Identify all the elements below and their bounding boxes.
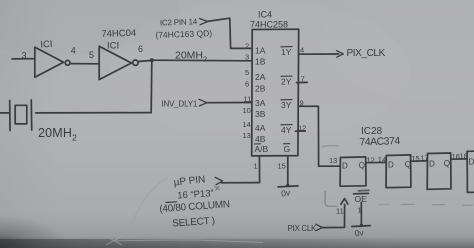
crystal X1 20MHz bbox=[10, 100, 32, 131]
svg-text:6: 6 bbox=[245, 80, 249, 89]
svg-text:3Y: 3Y bbox=[281, 100, 292, 110]
pin label 3Y with overline bbox=[281, 100, 293, 110]
FF1 D label bbox=[342, 162, 348, 171]
pin number 15 (FF2 Q) bbox=[411, 154, 419, 163]
svg-text:G: G bbox=[284, 144, 291, 154]
wire INV_DLY1 to IC4 pin11 3A bbox=[206, 102, 252, 104]
svg-text:INV_DLY1: INV_DLY1 bbox=[162, 100, 198, 109]
inverter U1A (IC1) bbox=[35, 47, 70, 77]
wire IC4 pin4 1Y to PIX_CLK bbox=[299, 53, 339, 55]
wire FF1 Q to FF2 D bbox=[366, 161, 386, 163]
svg-text:15: 15 bbox=[278, 162, 286, 171]
pin number 12 bbox=[298, 124, 306, 133]
pin label 1A bbox=[255, 46, 266, 56]
pin number 16 (FF3 Q) bbox=[452, 152, 460, 161]
svg-text:6: 6 bbox=[138, 44, 143, 54]
label 20MHz (top wire) bbox=[175, 49, 207, 63]
pin number 10 bbox=[243, 106, 251, 115]
wire crystal left stub bbox=[0, 112, 10, 114]
pin number 14 bbox=[243, 120, 251, 129]
arrow IC2 PIN14 bbox=[200, 19, 208, 25]
wire PIX_CLK to IC28 clock pin11 bbox=[322, 205, 345, 228]
pin number 6 bbox=[245, 80, 249, 89]
pin number 5 bbox=[245, 68, 249, 77]
paper crease bbox=[100, 177, 263, 245]
pin 3 label bbox=[22, 51, 27, 61]
pin number 2 bbox=[245, 42, 249, 51]
pin label 3B bbox=[255, 109, 266, 119]
label OE bbox=[355, 194, 368, 204]
svg-text:2B: 2B bbox=[255, 84, 266, 94]
svg-text:1A: 1A bbox=[255, 46, 266, 56]
svg-text:5: 5 bbox=[245, 68, 249, 77]
svg-text:IC2 PIN 14: IC2 PIN 14 bbox=[160, 17, 198, 27]
pin number 11 (IC28 clock) bbox=[336, 207, 344, 216]
clock edge arrowhead pin11 bbox=[341, 199, 348, 205]
pin label 4B bbox=[255, 134, 266, 144]
flip-flop FF1 (IC28) bbox=[340, 157, 366, 186]
svg-text:5: 5 bbox=[89, 50, 94, 60]
pin number 9 bbox=[300, 99, 304, 108]
ground 0V bar (IC4) bbox=[278, 186, 298, 187]
op IC4 74HC258 box bbox=[252, 29, 299, 156]
arrow PIX_CLK bbox=[337, 51, 344, 58]
label 20MHz (crystal) bbox=[38, 126, 77, 143]
svg-text:IC4: IC4 bbox=[258, 10, 272, 20]
svg-text:18: 18 bbox=[460, 152, 468, 161]
node junction at 20MHz bbox=[150, 58, 154, 62]
svg-text:1B: 1B bbox=[255, 57, 266, 67]
pin label 1B bbox=[255, 57, 266, 67]
wire IC4 pin1 A/B to uP select bbox=[222, 156, 260, 183]
pin label 4A bbox=[255, 123, 266, 133]
label IC2 PIN 14 bbox=[160, 17, 198, 27]
svg-text:1: 1 bbox=[358, 206, 362, 215]
svg-text:74HC258: 74HC258 bbox=[250, 20, 288, 30]
label 74HC258 bbox=[250, 20, 288, 30]
svg-text:4Y: 4Y bbox=[281, 125, 292, 135]
svg-text:2: 2 bbox=[245, 42, 249, 51]
label uP PIN bbox=[173, 174, 206, 188]
FF2 Q label bbox=[405, 160, 411, 169]
svg-text:3A: 3A bbox=[255, 98, 266, 108]
pin number 12 (FF1 Q) bbox=[367, 156, 375, 165]
svg-text:7: 7 bbox=[301, 75, 305, 84]
pin label 4Y with overline bbox=[281, 125, 293, 135]
inverter U1B (IC1 74HC04) bbox=[99, 46, 138, 79]
wire IC4 pin7 2Y stub bbox=[297, 81, 308, 83]
svg-text:13: 13 bbox=[243, 131, 251, 140]
svg-text:Q: Q bbox=[444, 159, 450, 168]
svg-text:3: 3 bbox=[22, 51, 27, 61]
svg-text:12: 12 bbox=[298, 124, 306, 133]
FF4 D label bbox=[469, 158, 474, 167]
FF3 D label bbox=[429, 160, 435, 169]
wire IC4 pin12 4Y stub bbox=[296, 130, 306, 132]
svg-text:12: 12 bbox=[367, 156, 375, 165]
svg-text:14: 14 bbox=[378, 155, 386, 164]
label 16 "P13" bbox=[177, 188, 214, 202]
svg-text:20MH2: 20MH2 bbox=[175, 49, 207, 63]
label PIX_CLK bbox=[347, 48, 386, 59]
svg-text:2Y: 2Y bbox=[281, 77, 292, 87]
svg-text:11: 11 bbox=[244, 95, 252, 104]
stray mark near uP arrow bbox=[215, 186, 221, 191]
svg-text:4A: 4A bbox=[255, 123, 266, 133]
wire OE to ground bbox=[360, 202, 362, 225]
pin number 11 bbox=[244, 95, 252, 104]
label SELECT ) bbox=[172, 216, 215, 230]
label IC1 (inverter2) bbox=[107, 41, 119, 52]
svg-text:A/B: A/B bbox=[255, 144, 269, 154]
pin number 14 (FF2 D) bbox=[378, 155, 386, 164]
ground 0V bar (OE) bbox=[352, 225, 370, 228]
pin label 2B bbox=[255, 84, 266, 94]
svg-text:PIX CLK: PIX CLK bbox=[288, 224, 318, 233]
flip-flop FF4 (IC28, partial) bbox=[467, 151, 474, 192]
wire FF2 Q to FF3 D bbox=[411, 160, 428, 162]
pin number 1 bbox=[254, 162, 258, 171]
node OE ground junction bbox=[360, 224, 363, 227]
wire inverter1 output to inverter2 input bbox=[70, 63, 99, 65]
label (40/80 COLUMN with overline on 40 bbox=[159, 199, 230, 215]
svg-text:(74HC163 QD): (74HC163 QD) bbox=[155, 28, 212, 40]
label IC4 bbox=[258, 10, 272, 20]
label IC28 bbox=[361, 126, 383, 137]
pin number 17 (FF3 D) bbox=[420, 154, 428, 163]
arrow PIX_CLK bottom bbox=[316, 224, 323, 230]
svg-text:74AC374: 74AC374 bbox=[359, 135, 400, 148]
svg-text:10: 10 bbox=[243, 106, 251, 115]
label IC1 (inverter1) bbox=[40, 39, 53, 51]
label 0V (OE ground) bbox=[354, 227, 365, 238]
svg-text:1: 1 bbox=[254, 162, 258, 171]
wire crystal to node (feedback) bbox=[36, 112, 152, 114]
FF2 D label bbox=[388, 161, 394, 170]
svg-text:PIX_CLK: PIX_CLK bbox=[347, 48, 386, 59]
svg-text:13: 13 bbox=[329, 156, 337, 165]
svg-text:17: 17 bbox=[420, 154, 428, 163]
faint clock hook sketch line bbox=[325, 191, 337, 206]
pin 5 label bbox=[89, 50, 94, 60]
arrow uP pin16 bbox=[215, 177, 222, 185]
faint dashes under flip-flops bbox=[322, 146, 472, 206]
svg-text:3B: 3B bbox=[255, 109, 266, 119]
svg-text:3: 3 bbox=[245, 53, 249, 62]
label PIX CLK (bottom) bbox=[288, 224, 318, 233]
pin label G with overline bbox=[283, 144, 290, 154]
pin 6 label bbox=[138, 44, 143, 54]
svg-text:15: 15 bbox=[411, 154, 419, 163]
pin number 15 bbox=[278, 162, 286, 171]
pin number 13 (FF1 D) bbox=[329, 156, 337, 165]
label (74HC163 QD) bbox=[155, 28, 212, 40]
svg-text:1Y: 1Y bbox=[281, 47, 292, 57]
wire 20MHz node to IC4 pin3 1B bbox=[152, 59, 252, 62]
label 74AC374 bbox=[359, 135, 400, 148]
pin label A/B with overline bbox=[254, 144, 269, 154]
arrow INV_DLY1 bbox=[199, 99, 207, 106]
pin number 1 (OE) bbox=[358, 206, 362, 215]
svg-text:D: D bbox=[342, 162, 348, 171]
label 74HC04 bbox=[101, 28, 136, 40]
pin label 2Y with overline bbox=[281, 76, 293, 86]
pin number 7 bbox=[301, 75, 305, 84]
svg-text:2A: 2A bbox=[255, 72, 266, 82]
svg-text:9: 9 bbox=[300, 99, 304, 108]
pin number 3 bbox=[245, 53, 249, 62]
svg-text:Q: Q bbox=[405, 160, 411, 169]
svg-text:OE: OE bbox=[355, 194, 368, 204]
svg-text:ICI: ICI bbox=[107, 41, 119, 52]
flip-flop FF2 (IC28) bbox=[386, 155, 411, 188]
svg-text:D: D bbox=[388, 161, 394, 170]
svg-text:14: 14 bbox=[243, 120, 251, 129]
wire node down to crystal loop bbox=[150, 60, 153, 112]
pin label 1Y with overline bbox=[281, 47, 293, 57]
node ground junction bbox=[286, 184, 289, 187]
pin label 2A bbox=[255, 72, 266, 82]
wire IC4 pin9 3Y to FF chain bbox=[298, 106, 340, 166]
svg-text:11: 11 bbox=[336, 207, 344, 216]
label INV_DLY1 bbox=[162, 100, 198, 109]
svg-text:4B: 4B bbox=[255, 134, 266, 144]
FF3 Q label bbox=[444, 159, 450, 168]
svg-text:74HC04: 74HC04 bbox=[101, 28, 136, 40]
pin label 3A bbox=[255, 98, 266, 108]
overline OE bbox=[354, 192, 369, 194]
wire FF3 Q to FF4 D bbox=[451, 158, 467, 160]
svg-text:4: 4 bbox=[71, 46, 76, 56]
wire IC4 pin15 G to ground bbox=[287, 156, 289, 186]
wire pin3 input to inverter IC1a bbox=[12, 58, 35, 60]
svg-text:ICI: ICI bbox=[40, 39, 53, 51]
svg-text:Q: Q bbox=[359, 161, 365, 170]
wire inverter2 output to node bbox=[138, 60, 151, 61]
pin number 13 bbox=[243, 131, 251, 140]
pin 4 label bbox=[71, 46, 76, 56]
FF1 Q label bbox=[359, 161, 365, 170]
wire IC2 PIN14 to IC4 pin2 1A bbox=[207, 18, 252, 48]
pin number 18 (FF4 D) bbox=[460, 152, 468, 161]
svg-text:D: D bbox=[429, 160, 435, 169]
flip-flop FF3 (IC28) bbox=[427, 153, 451, 189]
label 0V (IC4 ground) bbox=[280, 187, 291, 198]
svg-text:D: D bbox=[469, 158, 474, 167]
svg-text:4: 4 bbox=[300, 46, 304, 55]
pin number 4 bbox=[300, 46, 304, 55]
